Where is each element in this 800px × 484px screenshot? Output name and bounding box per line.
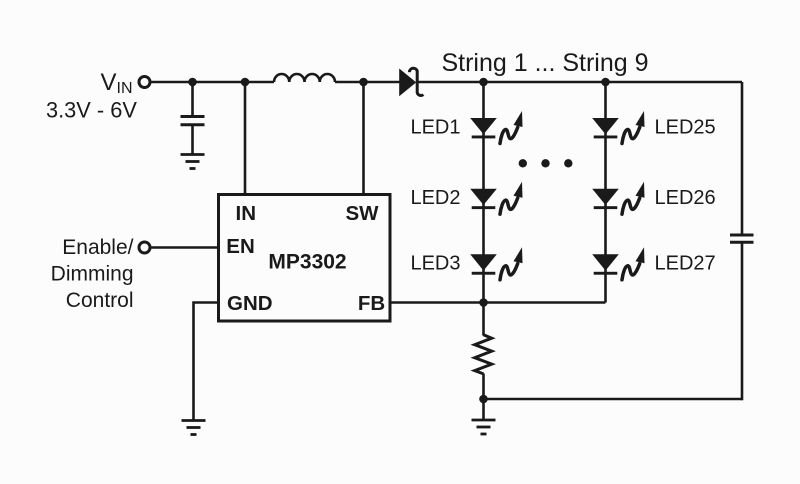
svg-text:LED26: LED26 bbox=[655, 187, 716, 209]
LED25 bbox=[592, 111, 644, 144]
ground (IC GND) bbox=[182, 421, 206, 435]
svg-text:SW: SW bbox=[345, 202, 379, 225]
svg-text:EN: EN bbox=[226, 235, 254, 258]
LED27 bbox=[592, 247, 644, 279]
svg-text:String 1 ... String 9: String 1 ... String 9 bbox=[441, 49, 648, 77]
svg-text:LED2: LED2 bbox=[410, 187, 460, 209]
svg-text:LED25: LED25 bbox=[655, 117, 716, 139]
wire: capacitor C1 to ground bbox=[191, 125, 194, 155]
ground (input capacitor) bbox=[181, 155, 205, 169]
node: VIN/C1 junction bbox=[188, 78, 197, 87]
svg-text:FB: FB bbox=[358, 292, 385, 315]
LED1 bbox=[470, 111, 522, 144]
node: FB / string1 bottom junction bbox=[479, 298, 488, 307]
wire: GND pin to ground bbox=[194, 303, 221, 421]
wire: string 9 vertical bbox=[604, 82, 607, 303]
LED3 bbox=[470, 247, 522, 279]
svg-text:Dimming: Dimming bbox=[51, 263, 134, 286]
label Enable/Dimming Control bbox=[51, 236, 134, 312]
wire: resistor to ground node bbox=[482, 374, 485, 421]
LED2 bbox=[470, 182, 522, 215]
svg-text:IN: IN bbox=[236, 202, 257, 225]
wire: bottom return rail bbox=[484, 398, 743, 401]
svg-text:3.3V - 6V: 3.3V - 6V bbox=[46, 98, 137, 123]
wire: FB rail bbox=[390, 301, 606, 304]
svg-text:LED27: LED27 bbox=[655, 253, 716, 275]
ellipsis dots (strings 2..8) bbox=[519, 159, 573, 167]
wire: right rail top segment bbox=[741, 82, 744, 235]
wire: junction to capacitor C1 bbox=[191, 82, 194, 116]
svg-text:LED3: LED3 bbox=[410, 253, 460, 275]
svg-text:MP3302: MP3302 bbox=[268, 251, 346, 274]
wire: junction to resistor R1 bbox=[482, 303, 485, 336]
wire: junction to IN pin bbox=[244, 82, 247, 196]
node: string 9 top junction bbox=[601, 78, 610, 87]
wire: EN terminal to EN pin bbox=[149, 246, 220, 249]
LED26 bbox=[592, 182, 644, 215]
wire: string 1 vertical bbox=[482, 82, 485, 303]
resistor R1 (FB sense) bbox=[475, 335, 492, 374]
wire: inductor to diode anode bbox=[335, 81, 400, 84]
inductor L1 bbox=[274, 74, 335, 82]
terminal VIN (open circle) bbox=[139, 77, 150, 88]
svg-text:GND: GND bbox=[227, 292, 273, 315]
node: resistor bottom junction bbox=[479, 395, 488, 404]
svg-text:Enable/: Enable/ bbox=[62, 236, 133, 259]
node: string 1 top junction bbox=[479, 78, 488, 87]
capacitor C2 (output) bbox=[730, 235, 754, 242]
capacitor C1 (input) bbox=[181, 117, 205, 125]
terminal EN (open circle) bbox=[139, 242, 150, 253]
IC U1 MP3302 body bbox=[219, 195, 391, 322]
diode D1 (Schottky) bbox=[399, 68, 423, 96]
wire: diode cathode to right rail bbox=[418, 81, 742, 84]
svg-text:Control: Control bbox=[66, 289, 134, 312]
wire: right rail bottom segment bbox=[741, 242, 744, 400]
node: SW junction bbox=[359, 78, 368, 87]
wire: junction to SW pin bbox=[362, 82, 365, 196]
node: IN junction bbox=[241, 78, 250, 87]
wire: top rail from VIN to inductor bbox=[149, 81, 274, 84]
svg-text:LED1: LED1 bbox=[410, 117, 460, 139]
svg-text:VIN: VIN bbox=[101, 69, 133, 97]
ground (resistor) bbox=[472, 420, 496, 434]
